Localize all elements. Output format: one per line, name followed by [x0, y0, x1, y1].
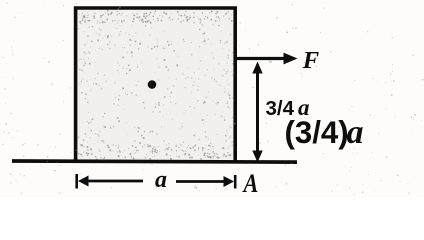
- svg-text:a: a: [155, 167, 167, 193]
- svg-text:A: A: [242, 169, 259, 197]
- svg-text:(3/4)a: (3/4)a: [285, 114, 364, 151]
- svg-text:F: F: [302, 47, 319, 74]
